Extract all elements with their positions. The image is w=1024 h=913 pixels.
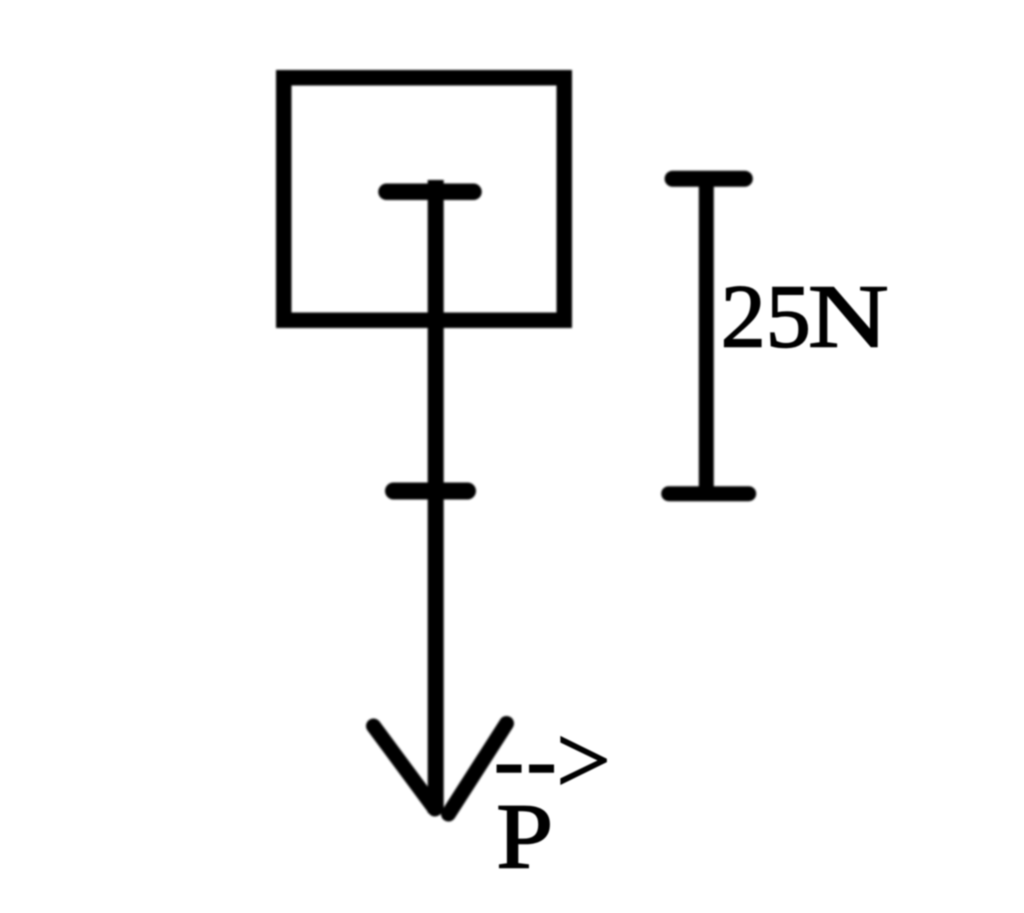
block (square box) — [284, 78, 565, 321]
middle tick — [394, 483, 468, 500]
scale bar stem — [699, 180, 714, 492]
scale bar bottom cap — [669, 486, 749, 501]
tail tick — [387, 184, 474, 201]
scale bar top cap — [673, 171, 745, 187]
force arrow shaft — [428, 180, 444, 813]
arrowhead right barb — [449, 724, 507, 815]
svg-text:P: P — [496, 786, 553, 889]
svg-text:25: 25 — [721, 267, 811, 366]
svg-text:N: N — [808, 266, 889, 365]
arrowhead left barb — [374, 726, 436, 809]
svg-text:>: > — [556, 707, 610, 814]
